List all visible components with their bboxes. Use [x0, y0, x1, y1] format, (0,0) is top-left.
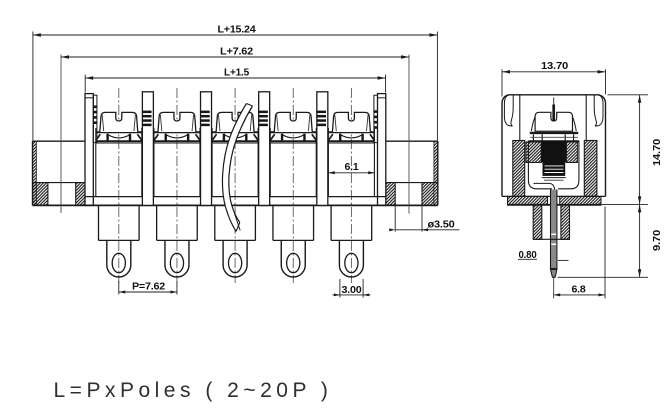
right mounting flange	[386, 140, 438, 142]
svg-text:3.00: 3.00	[342, 285, 363, 296]
clamp yoke	[528, 141, 552, 189]
pole 2 screw / clamp / solder pin	[154, 112, 200, 277]
dimension 3.00	[339, 279, 341, 298]
inserted wire (pole 3)	[222, 104, 252, 232]
pole 4 centerline	[292, 88, 294, 283]
pole 3 screw / clamp / solder pin	[212, 112, 258, 277]
clamp side sections	[526, 142, 541, 163]
hatched side walls (section)	[513, 141, 525, 197]
dimension P=7.62	[118, 281, 120, 295]
clamp body (solid)	[541, 141, 566, 162]
dimension 14.70	[608, 94, 649, 96]
dimension L+7.62	[61, 56, 409, 58]
pole 1 screw / clamp / solder pin	[96, 112, 142, 277]
left flange hole centerline	[60, 55, 62, 214]
body lower strip line	[85, 196, 386, 198]
screw threads	[543, 163, 566, 176]
washer plate	[530, 132, 578, 134]
barrier wall 1	[142, 92, 153, 206]
screw head (side)	[535, 112, 572, 131]
pole 1 centerline	[118, 88, 120, 283]
svg-text:14.70: 14.70	[652, 138, 663, 166]
solder pin	[551, 190, 556, 270]
pole 3 centerline	[234, 88, 236, 283]
barrier wall 2	[201, 92, 212, 206]
pole 5 screw / clamp / solder pin	[328, 112, 374, 277]
svg-text:L=PxPoles ( 2~20P ): L=PxPoles ( 2~20P )	[54, 379, 333, 402]
hatched base (section)	[508, 196, 548, 204]
dimension ø3.50	[394, 206, 396, 231]
front view: 5-pole terminal block	[33, 24, 460, 297]
body/flange bottom line	[33, 204, 438, 206]
svg-text:9.70: 9.70	[652, 229, 663, 251]
pole 5 centerline	[350, 88, 352, 283]
svg-text:P=7.62: P=7.62	[132, 282, 166, 293]
left end wall	[85, 94, 93, 206]
svg-text:L+15.24: L+15.24	[218, 24, 257, 35]
barrier wall 3	[259, 92, 270, 206]
svg-text:L+7.62: L+7.62	[220, 46, 254, 57]
pin tip	[551, 269, 557, 277]
svg-text:ø3.50: ø3.50	[428, 219, 456, 230]
pin channel (section)	[533, 205, 542, 240]
left corner ear	[504, 95, 512, 126]
svg-text:6.1: 6.1	[345, 162, 360, 173]
dimension L+15.24	[32, 32, 34, 141]
right flange hole centerline	[408, 55, 410, 214]
svg-text:6.8: 6.8	[572, 285, 587, 296]
dimension 13.70	[501, 69, 503, 96]
right end wall	[378, 94, 386, 206]
right corner ear	[595, 95, 603, 126]
screw slot	[553, 98, 555, 105]
dimension 6.1	[328, 172, 374, 174]
left mounting flange	[33, 140, 86, 142]
side sectional view	[502, 61, 663, 299]
housing outline	[502, 95, 606, 197]
svg-text:13.70: 13.70	[541, 61, 569, 72]
chamber walls	[519, 95, 521, 141]
svg-text:L+1.5: L+1.5	[224, 68, 250, 79]
dimension L+1.5	[84, 75, 86, 93]
left end wall inner strip	[93, 95, 97, 142]
right end wall inner strip	[374, 95, 378, 142]
dimension 6.8	[604, 207, 606, 299]
barrier wall 4	[317, 92, 328, 206]
pole 2 centerline	[176, 88, 178, 283]
pole 4 screw / clamp / solder pin	[270, 112, 316, 277]
